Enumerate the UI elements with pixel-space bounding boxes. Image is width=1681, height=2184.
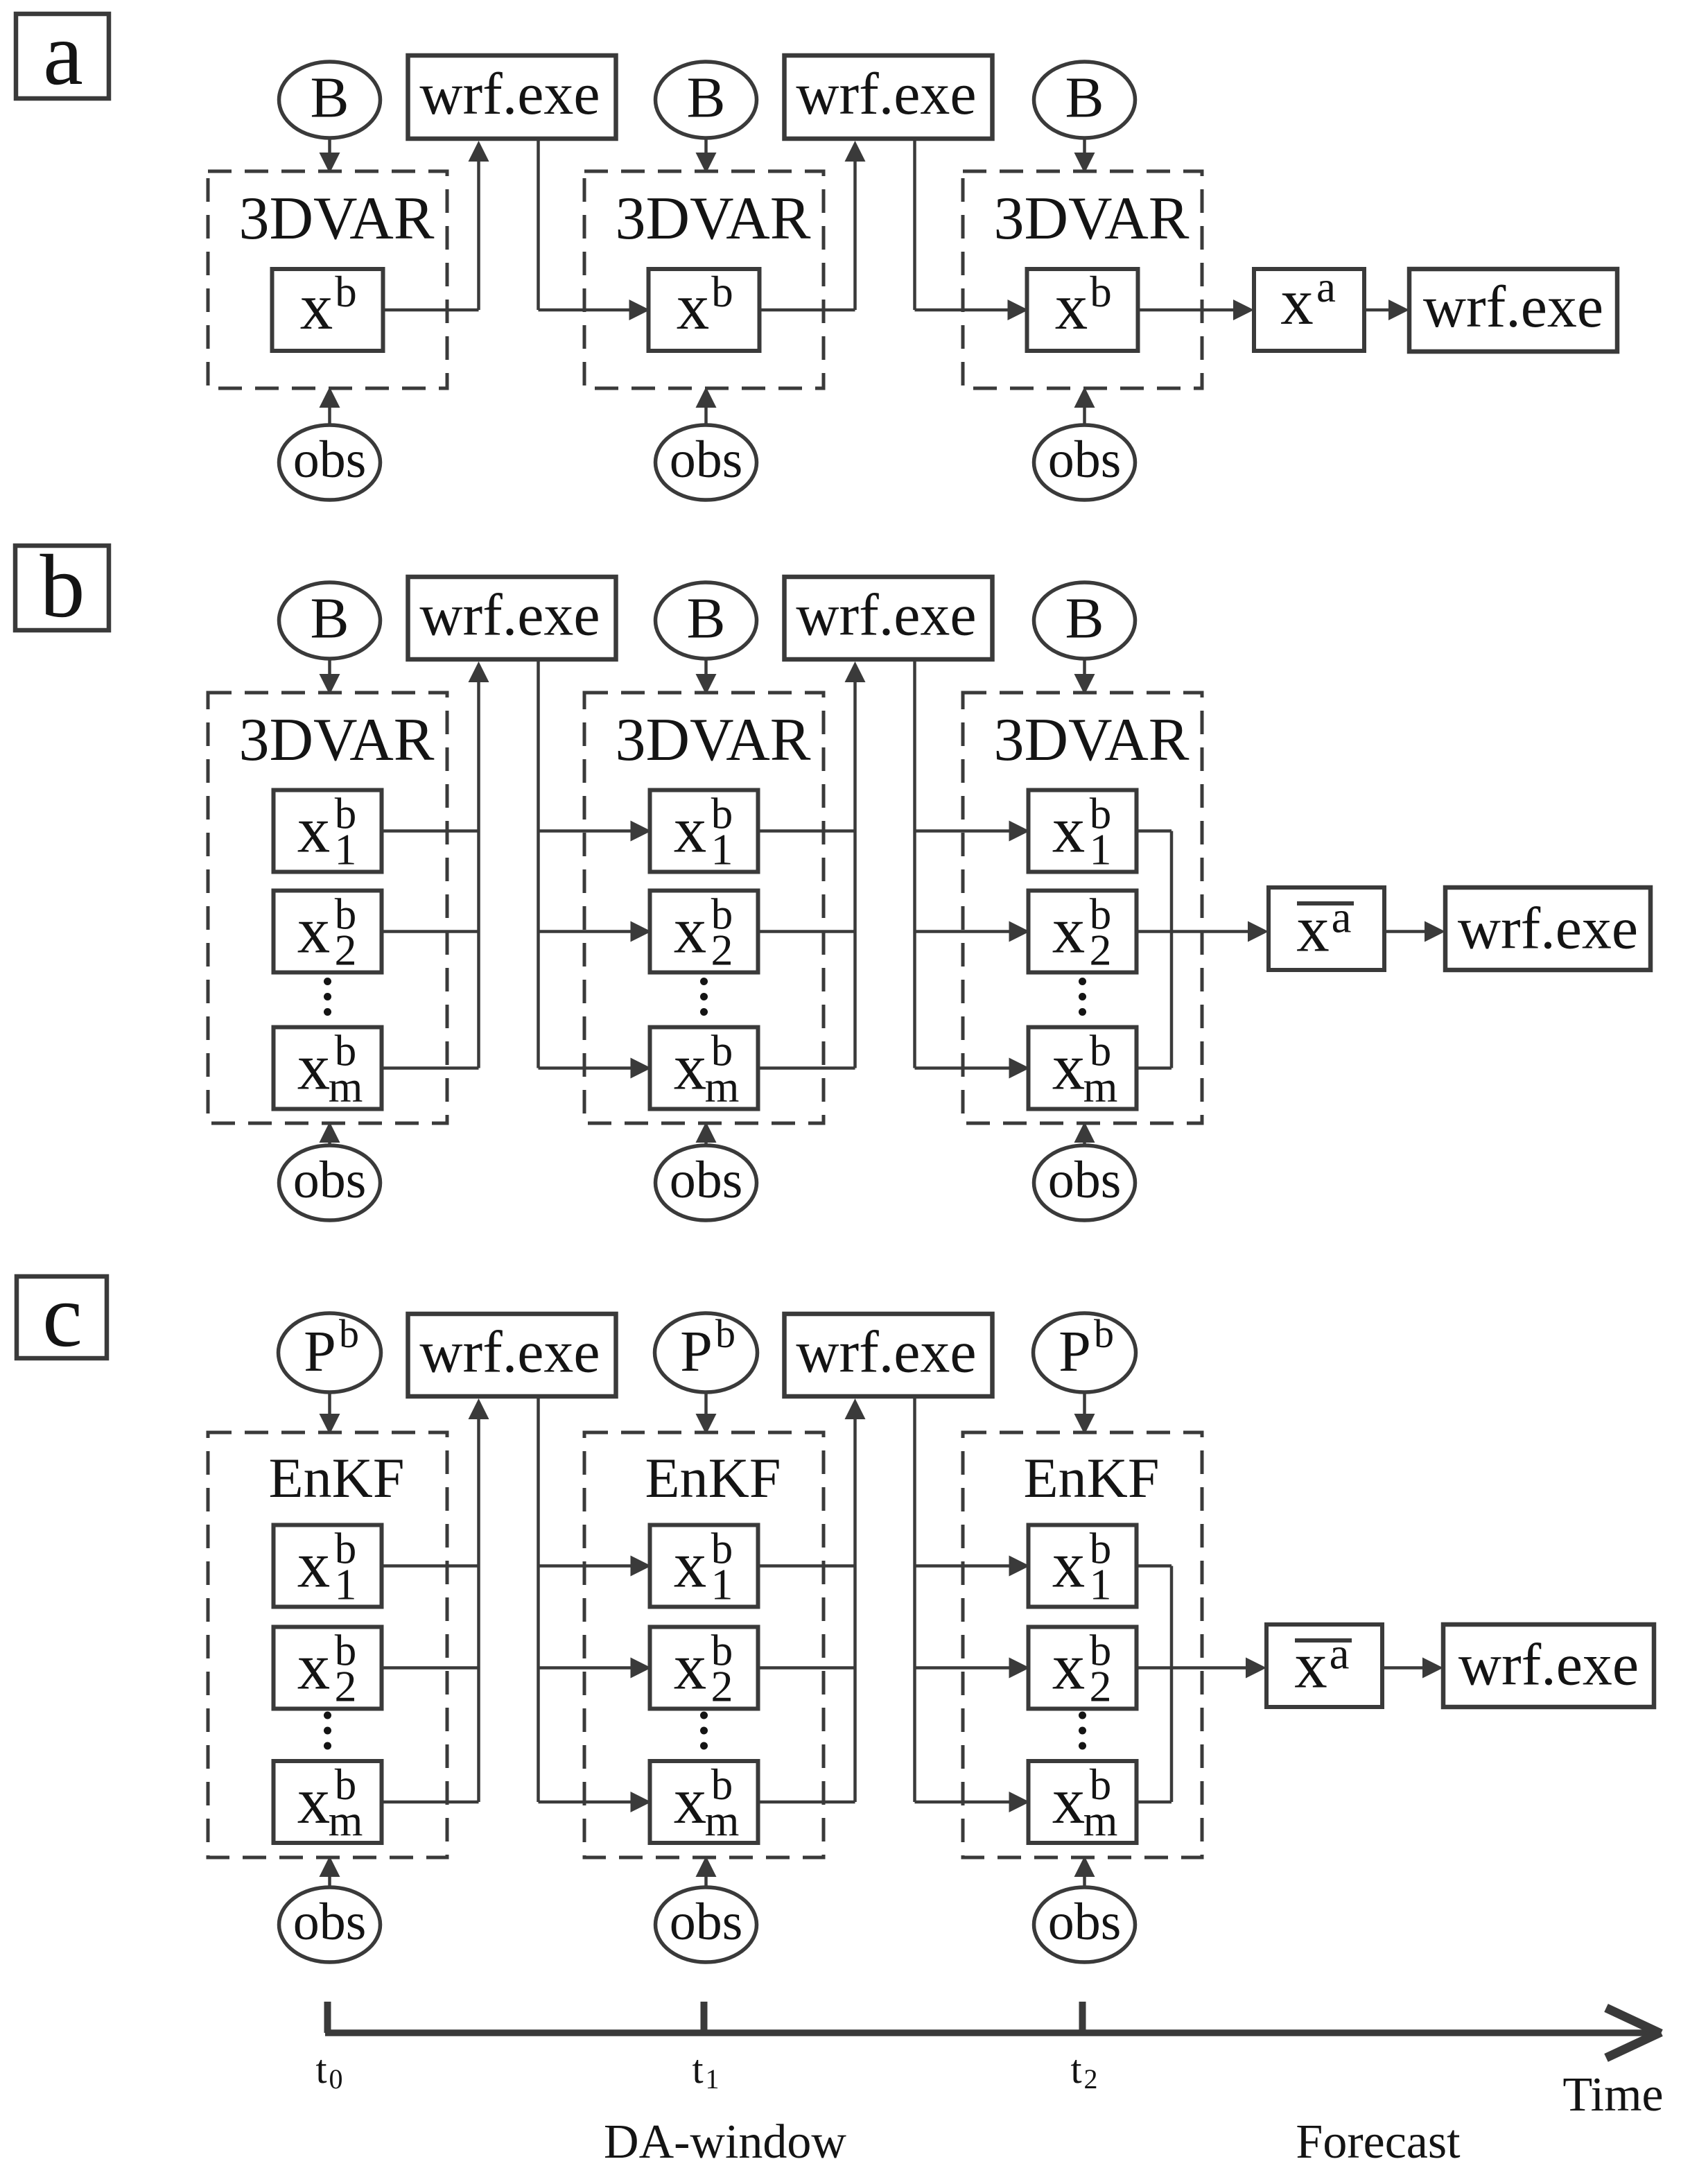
svg-text:x: x <box>1052 793 1086 867</box>
wire x^a→wrf.exe (a) <box>1364 309 1391 312</box>
3DVAR dashed box col3 (a) <box>963 171 1202 388</box>
tick t1 <box>701 2002 708 2033</box>
wire B→DA-box col2 (a) <box>704 138 708 155</box>
node obs ellipse col1 (a) <box>279 425 381 500</box>
svg-text:wrf.exe: wrf.exe <box>796 582 976 648</box>
box x_2^b col2 (b) <box>650 891 758 973</box>
box x_2^b col3 (b) <box>1029 891 1137 973</box>
svg-text:2: 2 <box>1084 2063 1098 2095</box>
svg-text:x: x <box>674 894 707 967</box>
wire wrf.exe→next members col1 (b) <box>537 659 540 1068</box>
node P^b ellipse col1 (c) <box>279 1313 381 1392</box>
svg-text:1: 1 <box>1090 1560 1112 1609</box>
box x_m^b col1 (b) <box>274 1028 382 1109</box>
wire wrf.exe→next members col2 (b) <box>913 659 916 1068</box>
svg-text:x: x <box>1052 1528 1086 1602</box>
wire member collector bus col3 (b) <box>1137 829 1172 833</box>
ellipsis dots col2 (b) <box>700 978 708 985</box>
tick t0 <box>324 2002 331 2033</box>
wire x^b→wrf.exe riser col2 (a) <box>760 309 855 312</box>
svg-text:1: 1 <box>335 1560 357 1609</box>
node B ellipse col3 (a) <box>1034 62 1135 138</box>
svg-text:x: x <box>297 894 331 967</box>
svg-text:B: B <box>1065 587 1104 651</box>
svg-text:obs: obs <box>293 431 367 489</box>
svg-text:2: 2 <box>1090 926 1112 975</box>
wrf.exe box col1 (b) <box>408 577 616 659</box>
svg-text:m: m <box>1083 1062 1118 1111</box>
svg-text:x: x <box>674 793 707 867</box>
svg-text:t: t <box>1070 2047 1081 2092</box>
svg-text:obs: obs <box>670 431 743 489</box>
wire B→DA-box col1 (c) <box>328 1392 331 1416</box>
svg-text:P: P <box>680 1319 713 1384</box>
svg-text:Time: Time <box>1562 2068 1663 2122</box>
wrf.exe forecast box (b) <box>1445 887 1650 970</box>
svg-text:a: a <box>1316 263 1336 311</box>
time axis arrowhead <box>1606 2008 1661 2034</box>
wire wrf.exe→next x^b col2 (a) <box>913 139 916 310</box>
wire B→DA-box col2 (c) <box>704 1392 708 1416</box>
svg-text:2: 2 <box>711 1662 733 1711</box>
svg-text:1: 1 <box>335 825 357 874</box>
svg-text:b: b <box>715 1311 735 1356</box>
svg-text:x: x <box>297 1764 331 1837</box>
tick t2 <box>1079 2002 1086 2033</box>
svg-text:B: B <box>686 66 725 130</box>
wire obs→DA-box col1 (a) <box>328 405 331 425</box>
svg-text:DA-window: DA-window <box>604 2115 846 2169</box>
wire wrf.exe→next members col2 (c) <box>913 1396 916 1802</box>
svg-text:b: b <box>1090 268 1112 316</box>
wire obs→DA-box col1 (b) <box>328 1140 331 1145</box>
wire obs→DA-box col2 (c) <box>704 1874 708 1887</box>
ellipsis dots col3 (c) <box>1079 1712 1086 1719</box>
wire obs→DA-box col1 (c) <box>328 1874 331 1887</box>
wire B→DA-box col3 (c) <box>1083 1392 1086 1416</box>
wire B→DA-box col3 (a) <box>1083 138 1086 155</box>
wire mean x^a→wrf.exe (b) <box>1384 930 1427 933</box>
svg-text:wrf.exe: wrf.exe <box>419 60 600 127</box>
3DVAR dashed box col3 (b) <box>963 693 1202 1123</box>
node obs ellipse col2 (a) <box>656 425 757 500</box>
wire members→wrf.exe riser col2 (b) <box>758 829 855 833</box>
svg-text:x: x <box>297 1030 331 1104</box>
svg-text:m: m <box>705 1796 740 1845</box>
svg-text:x: x <box>674 1030 707 1104</box>
svg-text:m: m <box>329 1796 363 1845</box>
svg-text:3DVAR: 3DVAR <box>615 707 810 774</box>
svg-text:2: 2 <box>711 926 733 975</box>
node obs ellipse col2 (c) <box>656 1887 757 1962</box>
svg-text:b: b <box>335 268 357 316</box>
svg-text:EnKF: EnKF <box>269 1446 405 1509</box>
box x_2^b col1 (b) <box>274 891 382 973</box>
node obs ellipse col3 (b) <box>1034 1145 1135 1220</box>
svg-text:x: x <box>677 270 710 343</box>
svg-text:obs: obs <box>670 1151 743 1209</box>
svg-text:wrf.exe: wrf.exe <box>1458 1631 1639 1698</box>
wire mean x^a→wrf.exe (c) <box>1382 1666 1425 1670</box>
box x_2^b col1 (c) <box>274 1627 382 1709</box>
wire obs→DA-box col3 (b) <box>1083 1140 1086 1145</box>
wire B→DA-box col1 (b) <box>328 659 331 677</box>
svg-text:B: B <box>1065 66 1104 130</box>
svg-text:3DVAR: 3DVAR <box>993 707 1189 774</box>
svg-text:obs: obs <box>1048 431 1122 489</box>
svg-text:x: x <box>1052 1030 1086 1104</box>
wire obs→DA-box col2 (a) <box>704 405 708 425</box>
svg-text:x: x <box>1052 894 1086 967</box>
wrf.exe forecast box (a) <box>1409 269 1617 352</box>
wrf.exe box col2 (c) <box>785 1314 993 1396</box>
svg-text:wrf.exe: wrf.exe <box>419 1319 600 1385</box>
svg-text:x: x <box>674 1630 707 1704</box>
box x_2^b col3 (c) <box>1029 1627 1137 1709</box>
box x_1^b col1 (c) <box>274 1525 382 1607</box>
wire B→DA-box col2 (b) <box>704 659 708 677</box>
svg-text:3DVAR: 3DVAR <box>615 185 810 252</box>
svg-text:P: P <box>304 1319 336 1384</box>
svg-text:x: x <box>297 793 331 867</box>
ellipsis dots col1 (b) <box>324 978 331 985</box>
node P^b ellipse col2 (c) <box>655 1313 758 1392</box>
box x^b col2 (a) <box>649 269 760 351</box>
svg-text:c: c <box>42 1266 82 1366</box>
node B ellipse col1 (a) <box>279 62 381 138</box>
svg-text:obs: obs <box>1048 1893 1122 1951</box>
node P^b ellipse col3 (c) <box>1034 1313 1136 1392</box>
box x^b col3 (a) <box>1027 269 1138 351</box>
wire x_2^b→mean x^a (b) <box>1137 930 1251 933</box>
wire obs→DA-box col2 (b) <box>704 1140 708 1145</box>
panel label a <box>16 14 109 98</box>
svg-text:x: x <box>674 1528 707 1602</box>
wire x^b→x^a (a) <box>1138 309 1237 312</box>
wire member collector bus col3 (c) <box>1137 1564 1172 1568</box>
wrf.exe box col1 (c) <box>408 1314 616 1396</box>
svg-text:a: a <box>43 4 83 104</box>
svg-text:x: x <box>1280 265 1314 338</box>
svg-text:2: 2 <box>1090 1662 1112 1711</box>
svg-text:m: m <box>329 1062 363 1111</box>
svg-text:m: m <box>1083 1796 1118 1845</box>
time axis <box>325 2029 1655 2036</box>
svg-text:wrf.exe: wrf.exe <box>796 60 976 127</box>
svg-text:t: t <box>692 2047 703 2092</box>
svg-text:a: a <box>1330 1629 1350 1679</box>
svg-text:b: b <box>339 1311 359 1356</box>
wire obs→DA-box col3 (c) <box>1083 1874 1086 1887</box>
node B ellipse col3 (b) <box>1034 582 1135 659</box>
wire members→wrf.exe riser col2 (c) <box>758 1564 855 1568</box>
svg-text:x: x <box>297 1528 331 1602</box>
node obs ellipse col1 (c) <box>279 1887 381 1962</box>
ellipsis dots col1 (c) <box>324 1712 331 1719</box>
box x_1^b col1 (b) <box>274 790 382 872</box>
node B ellipse col2 (b) <box>656 582 757 659</box>
svg-text:3DVAR: 3DVAR <box>238 185 434 252</box>
EnKF dashed box col1 (c) <box>208 1432 447 1857</box>
box x_m^b col2 (c) <box>650 1761 758 1843</box>
box x_1^b col3 (c) <box>1029 1525 1137 1607</box>
panel label b <box>15 546 109 630</box>
svg-text:b: b <box>1094 1311 1114 1356</box>
wrf.exe box col2 (b) <box>785 577 993 659</box>
svg-text:wrf.exe: wrf.exe <box>1458 895 1638 962</box>
box x_1^b col2 (b) <box>650 790 758 872</box>
svg-text:x: x <box>674 1764 707 1837</box>
wire B→DA-box col3 (b) <box>1083 659 1086 677</box>
wire x_2^b→mean x^a (c) <box>1137 1666 1249 1670</box>
svg-text:2: 2 <box>335 926 357 975</box>
ellipsis dots col3 (b) <box>1079 978 1086 985</box>
3DVAR dashed box col2 (a) <box>584 171 824 388</box>
svg-text:t: t <box>315 2047 326 2092</box>
svg-text:obs: obs <box>670 1893 743 1951</box>
svg-text:x: x <box>1052 1764 1086 1837</box>
wire wrf.exe→next members col1 (c) <box>537 1396 540 1802</box>
box x^b col1 (a) <box>272 269 383 351</box>
box x^a (a) <box>1254 269 1364 351</box>
3DVAR dashed box col1 (b) <box>208 693 447 1123</box>
svg-text:x: x <box>1052 1630 1086 1704</box>
svg-text:obs: obs <box>1048 1151 1122 1209</box>
wire wrf.exe→next x^b col1 (a) <box>537 139 540 310</box>
box x_m^b col1 (c) <box>274 1761 382 1843</box>
box mean x^a (c) <box>1266 1624 1382 1707</box>
svg-text:3DVAR: 3DVAR <box>993 185 1189 252</box>
wire members→wrf.exe riser col1 (b) <box>382 829 479 833</box>
wrf.exe forecast box (c) <box>1443 1624 1654 1707</box>
svg-text:wrf.exe: wrf.exe <box>419 582 600 648</box>
svg-text:2: 2 <box>335 1662 357 1711</box>
wrf.exe box col2 (a) <box>785 55 993 139</box>
svg-text:m: m <box>705 1062 740 1111</box>
svg-text:1: 1 <box>1090 825 1112 874</box>
panel label c <box>17 1276 107 1358</box>
wire members→wrf.exe riser col1 (c) <box>382 1564 479 1568</box>
box x_2^b col2 (c) <box>650 1627 758 1709</box>
box mean x^a (b) <box>1269 887 1384 970</box>
svg-text:a: a <box>1332 893 1352 943</box>
svg-text:x: x <box>300 270 333 343</box>
wrf.exe box col1 (a) <box>408 55 616 139</box>
svg-text:x: x <box>297 1630 331 1704</box>
svg-text:1: 1 <box>711 1560 733 1609</box>
svg-text:obs: obs <box>293 1151 367 1209</box>
svg-text:Forecast: Forecast <box>1296 2115 1461 2169</box>
svg-text:EnKF: EnKF <box>1024 1446 1160 1509</box>
svg-text:wrf.exe: wrf.exe <box>796 1319 976 1385</box>
svg-text:3DVAR: 3DVAR <box>238 707 434 774</box>
svg-text:B: B <box>686 587 725 651</box>
box x_1^b col3 (b) <box>1029 790 1137 872</box>
svg-text:B: B <box>310 587 349 651</box>
svg-text:x: x <box>1055 270 1088 343</box>
node obs ellipse col3 (a) <box>1034 425 1135 500</box>
box x_1^b col2 (c) <box>650 1525 758 1607</box>
3DVAR dashed box col2 (b) <box>584 693 824 1123</box>
svg-text:0: 0 <box>329 2063 343 2095</box>
node B ellipse col2 (a) <box>656 62 757 138</box>
ellipsis dots col2 (c) <box>700 1712 708 1719</box>
node obs ellipse col3 (c) <box>1034 1887 1135 1962</box>
EnKF dashed box col3 (c) <box>963 1432 1202 1857</box>
svg-text:P: P <box>1059 1319 1091 1384</box>
3DVAR dashed box col1 (a) <box>208 171 447 388</box>
node B ellipse col1 (b) <box>279 582 381 659</box>
svg-text:obs: obs <box>293 1893 367 1951</box>
svg-text:1: 1 <box>711 825 733 874</box>
node obs ellipse col2 (b) <box>656 1145 757 1220</box>
svg-text:EnKF: EnKF <box>645 1446 781 1509</box>
wire x^b→wrf.exe riser col1 (a) <box>383 309 479 312</box>
EnKF dashed box col2 (c) <box>584 1432 824 1857</box>
node obs ellipse col1 (b) <box>279 1145 381 1220</box>
svg-text:b: b <box>40 537 85 636</box>
box x_m^b col3 (b) <box>1029 1028 1137 1109</box>
wire B→DA-box col1 (a) <box>328 138 331 155</box>
svg-text:b: b <box>711 268 733 316</box>
svg-text:wrf.exe: wrf.exe <box>1423 273 1603 340</box>
box x_m^b col2 (b) <box>650 1028 758 1109</box>
box x_m^b col3 (c) <box>1029 1761 1137 1843</box>
wire obs→DA-box col3 (a) <box>1083 405 1086 425</box>
svg-text:1: 1 <box>706 2063 720 2095</box>
svg-text:B: B <box>310 66 349 130</box>
